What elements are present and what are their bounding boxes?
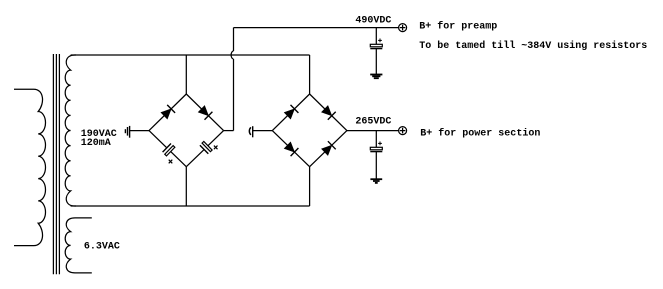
wire bridge2 bottom riser (309, 167, 311, 206)
transformer T1 core laminations (53, 54, 59, 274)
svg-text:490VDC: 490VDC (355, 15, 391, 26)
diode D4 bridge2 top-right (310, 94, 347, 131)
diode D6 bridge2 bottom-right (310, 131, 347, 167)
wire bridge1 bottom riser (185, 167, 187, 206)
transformer T1 primary winding (14, 89, 46, 245)
capacitor C2 bridge1 bottom-right (186, 131, 223, 167)
label 490VDC (355, 15, 391, 26)
wire C4 to ground (375, 152, 377, 180)
wire bridge2 left stub (253, 130, 273, 132)
label 265VDC (355, 117, 391, 128)
ground for C4 (370, 179, 382, 183)
chassis terminal at bridge1 left node (125, 126, 129, 138)
diode D1 bridge1 top-left (149, 94, 186, 131)
label B+ for power section (420, 127, 540, 139)
wire bridge2 top riser (309, 55, 311, 94)
terminal 490VDC output (399, 24, 407, 32)
wire 265V horizontal (347, 130, 399, 132)
transformer T1 heater winding 6.3VAC (65, 218, 92, 273)
wire bridge1 right stub (224, 130, 234, 132)
capacitor plate terminal at bridge2 left node (249, 126, 252, 137)
wire hop over AC line (231, 51, 233, 59)
svg-text:6.3VAC: 6.3VAC (84, 242, 120, 253)
polarity mark C2 (214, 146, 218, 150)
wire 490V riser upper (233, 28, 235, 51)
wire C3 to ground (375, 49, 377, 75)
label 120mA (81, 138, 111, 149)
label B+ for preamp (419, 21, 497, 33)
svg-text:B+ for preamp: B+ for preamp (419, 21, 497, 33)
wire 490V horizontal (234, 27, 399, 29)
wire 490V riser lower (233, 59, 235, 131)
capacitor C3 490V filter (370, 28, 382, 49)
diode D3 bridge2 top-left (272, 94, 309, 131)
diode D2 bridge1 top-right (186, 94, 223, 131)
capacitor C1 bridge1 bottom-left (149, 131, 186, 167)
terminal 265VDC output (399, 127, 407, 135)
wire secondary top to bridge tops (71, 54, 310, 56)
diode D5 bridge2 bottom-left (272, 131, 309, 167)
svg-text:265VDC: 265VDC (355, 117, 391, 128)
ground for C3 (370, 75, 382, 79)
note to be tamed (419, 40, 647, 52)
svg-text:120mA: 120mA (81, 138, 111, 149)
label 6.3VAC (84, 242, 120, 253)
polarity mark C1 (169, 160, 173, 164)
wire bridge1 top riser (185, 55, 187, 94)
svg-text:To be tamed till ~384V using r: To be tamed till ~384V using resistors (419, 40, 647, 52)
wire bridge1 left stub (130, 130, 149, 132)
capacitor C4 265V filter (370, 131, 382, 152)
transformer T1 secondary winding 190VAC (65, 55, 76, 206)
wire secondary bottom bus (71, 205, 310, 207)
label 190VAC (81, 129, 117, 140)
svg-text:B+ for power section: B+ for power section (420, 127, 540, 139)
